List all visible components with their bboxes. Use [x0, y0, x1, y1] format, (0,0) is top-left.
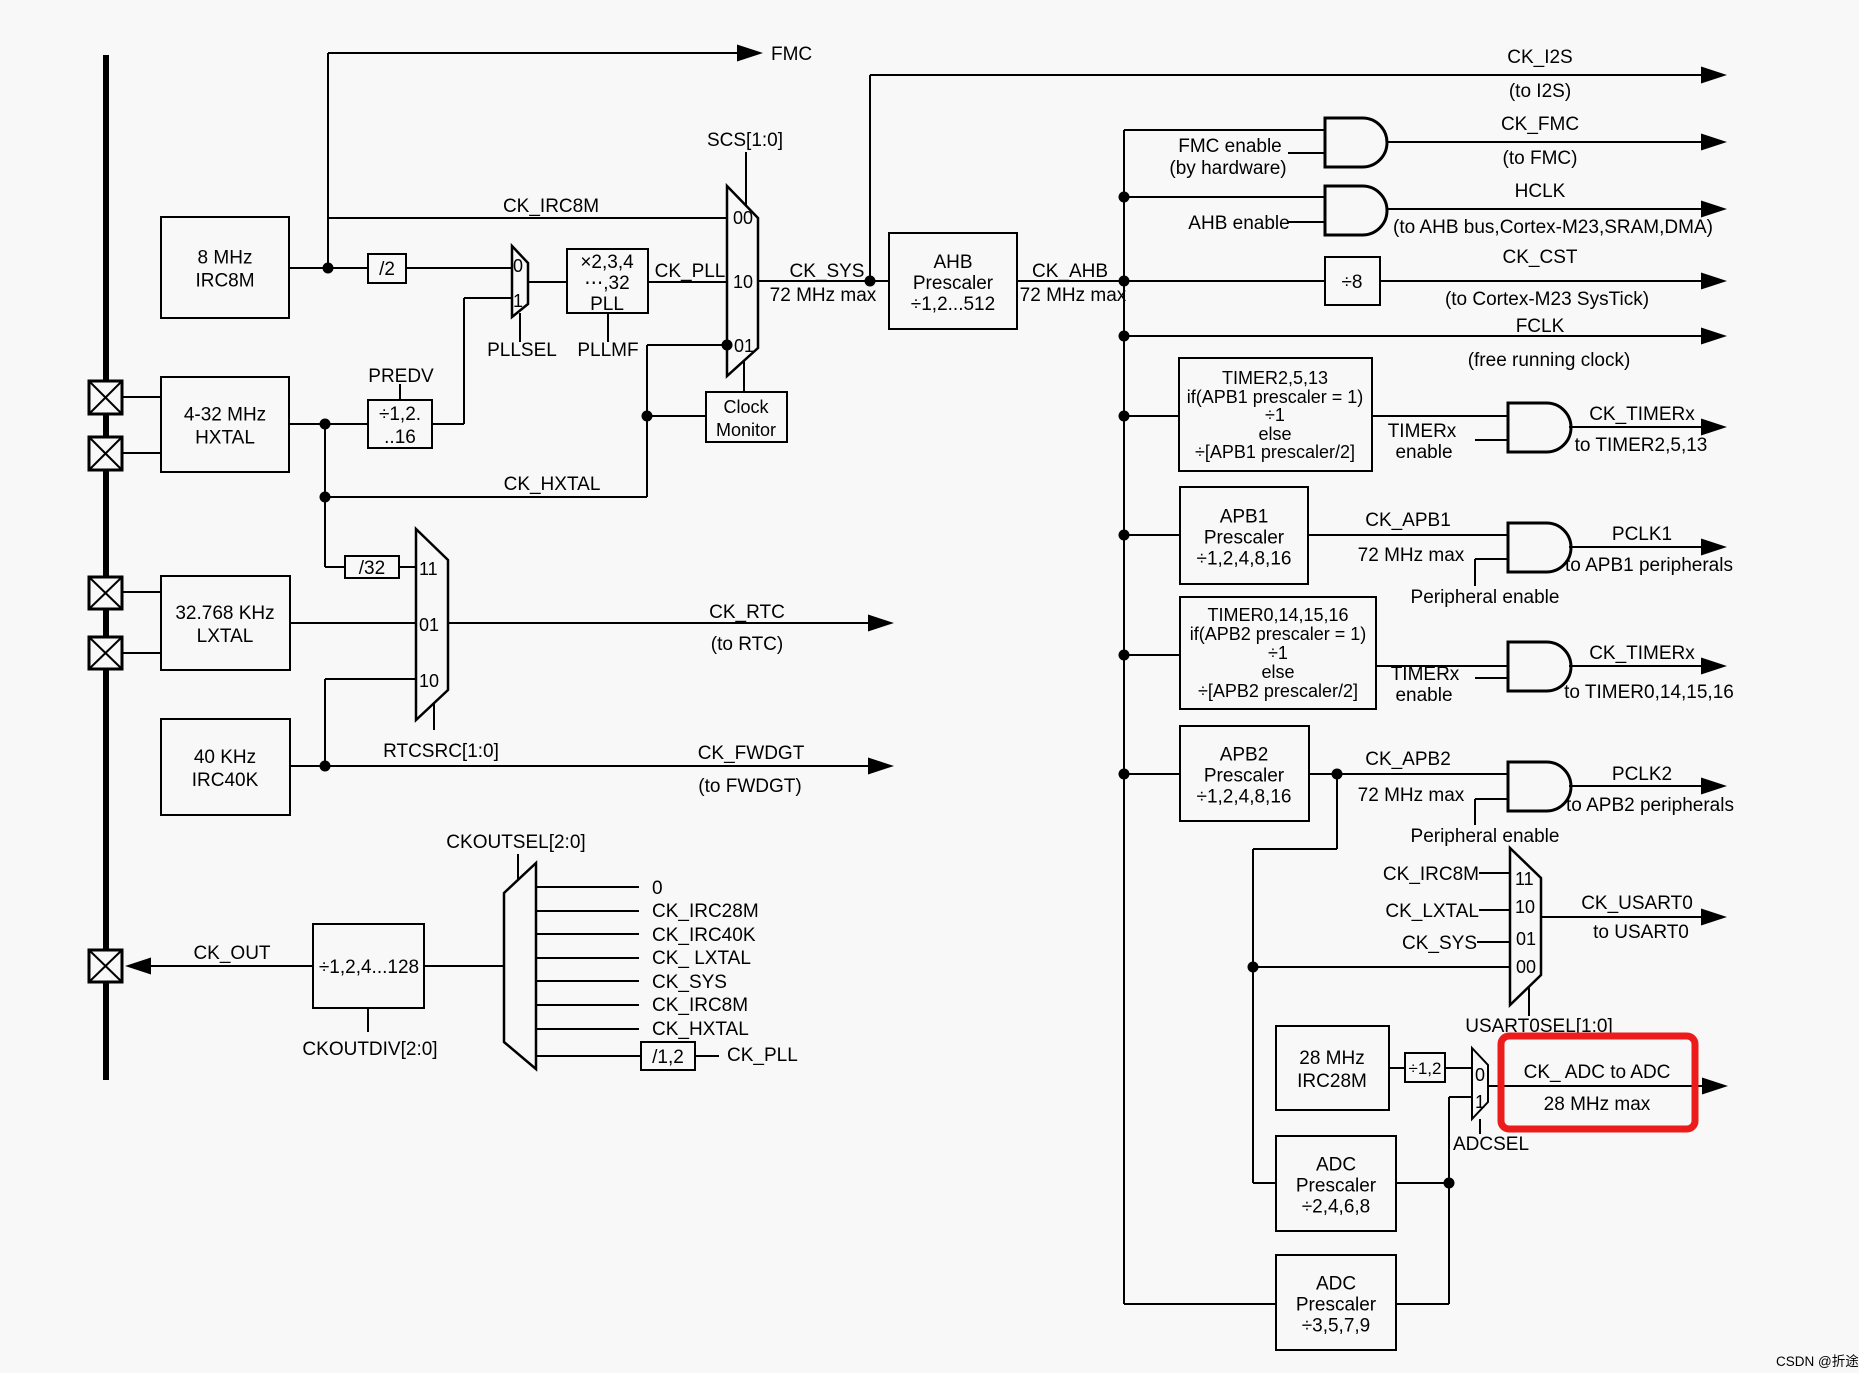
and-gate U4 APB1 peripheral clock gate: [1508, 523, 1571, 572]
svg-text:else: else: [1258, 424, 1291, 444]
svg-text:CK_I2S: CK_I2S: [1507, 47, 1572, 68]
svg-text:PLLSEL: PLLSEL: [487, 340, 557, 361]
prescaler APB1 (divide 1,2,4,8,16): [1180, 487, 1308, 584]
svg-text:HXTAL: HXTAL: [195, 428, 255, 449]
wire LXTAL pin1 to oscillator: [122, 591, 161, 593]
svg-text:10: 10: [419, 671, 439, 691]
wire PCLK2 enable drop: [1474, 799, 1476, 825]
wire into RTC mux input 10: [325, 678, 416, 680]
wire TIMER0,14,15,16 to gate: [1376, 665, 1508, 667]
svg-text:FMC: FMC: [771, 44, 812, 65]
arrow HCLK: [1701, 201, 1727, 218]
svg-text:CK_APB2: CK_APB2: [1365, 749, 1451, 770]
mux PLLSEL: [512, 246, 528, 317]
svg-text:÷1,2: ÷1,2: [1409, 1059, 1442, 1078]
crystal pad X3 (LXTAL pin1): [89, 577, 122, 609]
arrow CK_FMC: [1701, 134, 1727, 151]
wire IRC28M to divider: [1389, 1067, 1405, 1069]
svg-text:TIMERx: TIMERx: [1388, 421, 1457, 442]
wire PREDV riser to PLLSEL input 1: [463, 298, 465, 424]
wire CK_OUT: [146, 965, 313, 967]
wire bus to AHB-enable gate: [1124, 196, 1325, 198]
prescaler PREDV (divide 1,2..16): [368, 400, 432, 448]
svg-text:(to RTC): (to RTC): [711, 634, 783, 655]
svg-text:ADC: ADC: [1316, 1155, 1356, 1176]
wire into ADC prescaler 2,4,6,8: [1253, 1182, 1276, 1184]
svg-text:÷1: ÷1: [1268, 643, 1288, 663]
junction HXTAL output node: [320, 419, 331, 430]
junction clock monitor tap: [642, 411, 653, 422]
svg-text:LXTAL: LXTAL: [197, 626, 254, 647]
wire PCLK2 output: [1569, 785, 1712, 787]
svg-text:PREDV: PREDV: [368, 366, 434, 387]
wire CK_SYS to USART mux: [1477, 941, 1510, 943]
wire IRC8M output: [289, 267, 368, 269]
svg-text:CK_IRC28M: CK_IRC28M: [652, 901, 759, 922]
wire ADC prescaler 2468 output: [1396, 1182, 1449, 1184]
svg-text:÷1,2,4,8,16: ÷1,2,4,8,16: [1197, 787, 1292, 808]
svg-text:CK_TIMERx: CK_TIMERx: [1589, 404, 1695, 425]
wire AHB enable input: [1288, 221, 1325, 223]
wire CKOUTSEL input CK_IRC40K: [536, 933, 639, 935]
power rail (thick vertical line): [103, 55, 109, 1080]
svg-text:CK_HXTAL: CK_HXTAL: [652, 1019, 749, 1040]
svg-text:to APB2 peripherals: to APB2 peripherals: [1566, 795, 1734, 816]
divider /32: [345, 556, 399, 579]
svg-text:CKOUTDIV[2:0]: CKOUTDIV[2:0]: [302, 1039, 437, 1060]
svg-text:CK_IRC40K: CK_IRC40K: [652, 925, 756, 946]
svg-text:8 MHz: 8 MHz: [198, 248, 253, 269]
divider /2: [368, 254, 406, 283]
svg-text:APB1: APB1: [1220, 507, 1269, 528]
wire FMC enable input: [1288, 152, 1325, 154]
svg-text:PCLK2: PCLK2: [1612, 764, 1672, 785]
arrow PCLK1: [1701, 539, 1727, 556]
oscillator IRC28M (28 MHz): [1276, 1026, 1389, 1110]
pll PLL (x2,3,4...32): [567, 249, 648, 315]
mux USART0SEL: [1510, 848, 1541, 1005]
crystal pad X5 (CK_OUT pin): [89, 950, 122, 982]
wire CKOUTSEL input CK_HXTAL: [536, 1028, 639, 1030]
svg-text:CK_LXTAL: CK_LXTAL: [1385, 901, 1479, 922]
wire CKOUTSEL input CK_SYS: [536, 980, 639, 982]
svg-text:CK_RTC: CK_RTC: [709, 602, 785, 623]
wire CK_CST output: [1380, 280, 1712, 282]
svg-text:enable: enable: [1395, 442, 1452, 463]
svg-text:(to AHB bus,Cortex-M23,SRAM,DM: (to AHB bus,Cortex-M23,SRAM,DMA): [1393, 217, 1713, 238]
svg-text:(to FMC): (to FMC): [1503, 148, 1578, 169]
svg-text:CK_TIMERx: CK_TIMERx: [1589, 643, 1695, 664]
wire CK_APB2 shift left: [1253, 848, 1337, 850]
wire CK_SYS riser to CK_I2S: [869, 75, 871, 281]
svg-text:IRC40K: IRC40K: [192, 770, 259, 791]
svg-text:÷1: ÷1: [1265, 405, 1285, 425]
svg-text:APB2: APB2: [1220, 745, 1269, 766]
wire PCLK1 output: [1569, 546, 1712, 548]
junction CK_HXTAL node: [320, 492, 331, 503]
svg-text:Prescaler: Prescaler: [1204, 528, 1285, 549]
svg-text:CK_FMC: CK_FMC: [1501, 114, 1579, 135]
wire CK_IRC8M to SCS mux input 00: [328, 217, 727, 219]
wire bus to APB2 prescaler: [1124, 773, 1180, 775]
svg-text:CK_OUT: CK_OUT: [193, 943, 270, 964]
divider ÷8: [1325, 257, 1380, 305]
svg-text:40 KHz: 40 KHz: [194, 747, 256, 768]
crystal pad X2 (HXTAL pin2): [89, 437, 122, 470]
svg-text:72 MHz max: 72 MHz max: [770, 285, 877, 306]
svg-text:CK_USART0: CK_USART0: [1581, 893, 1693, 914]
svg-text:if(APB2 prescaler = 1): if(APB2 prescaler = 1): [1190, 624, 1367, 644]
svg-text:(free running clock): (free running clock): [1468, 350, 1631, 371]
svg-text:72 MHz max: 72 MHz max: [1358, 785, 1465, 806]
wire CKOUTSEL input 0: [536, 886, 639, 888]
svg-text:1: 1: [513, 291, 523, 311]
svg-text:PCLK1: PCLK1: [1612, 524, 1672, 545]
svg-text:Prescaler: Prescaler: [1296, 1295, 1377, 1316]
svg-text:CK_CST: CK_CST: [1503, 247, 1578, 268]
svg-text:IRC8M: IRC8M: [195, 271, 254, 292]
oscillator IRC40K (40 KHz): [161, 719, 290, 815]
junction CK_APB2 node: [1332, 769, 1343, 780]
wire CK_APB2 drop: [1336, 774, 1338, 849]
svg-text:ADC: ADC: [1316, 1274, 1356, 1295]
arrow CK_OUT to pad: [125, 958, 151, 975]
svg-text:÷3,5,7,9: ÷3,5,7,9: [1302, 1316, 1371, 1337]
junction bus to AHB-enable gate: [1119, 192, 1130, 203]
svg-text:32.768 KHz: 32.768 KHz: [175, 603, 274, 624]
wire CK_USART0 output: [1541, 916, 1712, 918]
svg-text:÷2,4,6,8: ÷2,4,6,8: [1302, 1197, 1371, 1218]
wire /32 to RTC mux input 11: [399, 566, 416, 568]
svg-text:28 MHz: 28 MHz: [1299, 1048, 1364, 1069]
svg-text:0: 0: [1475, 1065, 1485, 1085]
wire bus to TIMER0,14,15,16 block: [1124, 654, 1180, 656]
svg-text:IRC28M: IRC28M: [1297, 1071, 1367, 1092]
wire PCLK1 enable input: [1475, 558, 1508, 560]
junction ADC prescaler node: [1444, 1178, 1455, 1189]
prescaler ADC (divide 3,5,7,9): [1276, 1255, 1396, 1350]
svg-text:⋯,32: ⋯,32: [584, 273, 629, 294]
wire PLLMF label pointer: [607, 313, 609, 342]
arrow CK_USART0: [1701, 909, 1727, 926]
svg-text:CK_IRC8M: CK_IRC8M: [652, 995, 748, 1016]
svg-text:Monitor: Monitor: [716, 420, 776, 440]
svg-text:TIMER0,14,15,16: TIMER0,14,15,16: [1207, 605, 1348, 625]
wire HCLK output: [1387, 208, 1712, 210]
wire bus to APB1 prescaler: [1124, 534, 1180, 536]
svg-text:72 MHz max: 72 MHz max: [1358, 545, 1465, 566]
wire PREDV output: [432, 423, 464, 425]
wire CKOUTSEL input CK_ LXTAL: [536, 957, 639, 959]
junction bus TIMER0,14,15,16 tap: [1119, 650, 1130, 661]
arrow CK_RTC: [868, 615, 894, 632]
prescaler AHB (divide 1,2...512): [889, 233, 1017, 329]
svg-text:0: 0: [652, 878, 663, 899]
crystal pad X4 (LXTAL pin2): [89, 637, 122, 669]
wire CK_APB2 to gate: [1309, 773, 1508, 775]
wire bus to FMC-enable gate: [1124, 129, 1325, 131]
wire CKOUTSEL input CK_IRC8M: [536, 1004, 639, 1006]
svg-text:TIMER2,5,13: TIMER2,5,13: [1222, 368, 1328, 388]
wire ADCSEL select: [1479, 1119, 1481, 1134]
and-gate U1 FMC clock gate: [1325, 118, 1387, 167]
wire AHB distribution bus (vertical): [1123, 130, 1125, 1304]
wire CK_FMC output: [1387, 141, 1712, 143]
svg-text:PLL: PLL: [590, 294, 624, 315]
mux CKOUTSEL: [504, 863, 536, 1069]
wire CK_APB1 to gate: [1308, 534, 1508, 536]
wire /2 to PLLSEL mux input 0: [406, 267, 512, 269]
junction bus APB1 tap: [1119, 530, 1130, 541]
wire PREDV label pointer: [399, 384, 401, 400]
wire /1,2 to CK_PLL label: [695, 1055, 719, 1057]
svg-text:Prescaler: Prescaler: [913, 273, 994, 294]
wire to clock monitor: [647, 415, 706, 417]
junction IRC40K node: [320, 761, 331, 772]
wire FMC riser: [327, 53, 329, 268]
svg-text:Peripheral enable: Peripheral enable: [1411, 587, 1560, 608]
svg-text:CK_ ADC to ADC: CK_ ADC to ADC: [1524, 1062, 1671, 1083]
svg-text:01: 01: [734, 336, 754, 356]
svg-text:/1,2: /1,2: [652, 1047, 684, 1068]
junction bus to divide-8: [1119, 276, 1130, 287]
wire CK_PLL to SCS mux input 10: [648, 281, 727, 283]
svg-text:72 MHz max: 72 MHz max: [1020, 285, 1127, 306]
svg-text:CKOUTSEL[2:0]: CKOUTSEL[2:0]: [446, 832, 585, 853]
prescaler ADC (divide 2,4,6,8): [1276, 1136, 1396, 1231]
wire SCS select: [745, 152, 747, 206]
svg-text:HCLK: HCLK: [1515, 181, 1566, 202]
svg-text:if(APB1 prescaler = 1): if(APB1 prescaler = 1): [1187, 387, 1364, 407]
wire CK_HXTAL: [325, 496, 647, 498]
svg-text:÷1,2,4,8,16: ÷1,2,4,8,16: [1197, 549, 1292, 570]
svg-text:÷1,2...512: ÷1,2...512: [911, 294, 995, 315]
svg-text:CK_PLL: CK_PLL: [727, 1045, 798, 1066]
svg-text:ADCSEL: ADCSEL: [1453, 1134, 1529, 1155]
svg-text:(by hardware): (by hardware): [1169, 158, 1286, 179]
junction SCS input 01 node: [722, 340, 733, 351]
wire CK_LXTAL to USART mux: [1479, 909, 1510, 911]
svg-text:CK_SYS: CK_SYS: [790, 261, 865, 282]
wire bus to divide-8: [1124, 280, 1325, 282]
wire ADCSEL input 1: [1449, 1096, 1472, 1098]
svg-text:÷8: ÷8: [1342, 272, 1363, 293]
wire TIMERx enable input 2: [1475, 677, 1508, 679]
wire FCLK output: [1124, 335, 1712, 337]
wire HXTAL pin1 to oscillator: [122, 396, 161, 398]
wire LXTAL to RTC mux input 01: [290, 622, 416, 624]
wire HXTAL branch down: [324, 424, 326, 567]
junction USART 00 tap: [1248, 962, 1259, 973]
wire CKOUTSEL input CK_IRC28M: [536, 910, 639, 912]
svg-text:Peripheral enable: Peripheral enable: [1411, 826, 1560, 847]
svg-text:1: 1: [1475, 1092, 1485, 1112]
svg-text:CK_IRC8M: CK_IRC8M: [503, 196, 599, 217]
svg-text:÷[APB2 prescaler/2]: ÷[APB2 prescaler/2]: [1198, 681, 1358, 701]
arrow CK_CST: [1701, 273, 1727, 290]
svg-text:28 MHz max: 28 MHz max: [1544, 1094, 1651, 1115]
wire CK_ADC output: [1488, 1085, 1713, 1087]
wire FMC to flash: [328, 52, 740, 54]
prescaler CKOUTDIV (divide 1,2,4...128): [313, 924, 424, 1008]
wire LXTAL pin2 to oscillator: [122, 652, 161, 654]
svg-text:AHB: AHB: [933, 252, 972, 273]
svg-text:FCLK: FCLK: [1516, 316, 1565, 337]
svg-text:CK_AHB: CK_AHB: [1032, 261, 1108, 282]
wire HXTAL pin2 to oscillator: [122, 452, 161, 454]
svg-text:CSDN @折途: CSDN @折途: [1776, 1353, 1859, 1369]
svg-text:/2: /2: [379, 259, 395, 280]
svg-text:to TIMER0,14,15,16: to TIMER0,14,15,16: [1564, 682, 1734, 703]
wire RTC mux output CK_RTC: [448, 622, 880, 624]
oscillator HXTAL (4-32 MHz): [161, 377, 289, 472]
wire into PLLSEL mux input 1: [464, 297, 512, 299]
arrow FMC: [737, 45, 763, 62]
and-gate U5 TIMER0,14,15,16 clock gate: [1508, 642, 1571, 691]
svg-text:PLLMF: PLLMF: [577, 340, 638, 361]
svg-text:÷1,2.: ÷1,2.: [379, 404, 421, 425]
svg-text:(to FWDGT): (to FWDGT): [698, 776, 801, 797]
wire CK_SYS from SCS mux to AHB prescaler: [758, 280, 889, 282]
prescaler APB2 (divide 1,2,4,8,16): [1180, 726, 1309, 821]
wire PLLSEL select: [519, 313, 521, 342]
svg-text:00: 00: [733, 208, 753, 228]
mux SCS system clock select: [727, 186, 758, 376]
svg-text:to TIMER2,5,13: to TIMER2,5,13: [1575, 435, 1708, 456]
svg-text:÷[APB1 prescaler/2]: ÷[APB1 prescaler/2]: [1195, 442, 1355, 462]
wire HXTAL output: [289, 423, 368, 425]
wire TIMER2,5,13 to gate: [1372, 415, 1508, 417]
wire PLLSEL mux output: [528, 281, 567, 283]
svg-text:CK_APB1: CK_APB1: [1365, 510, 1451, 531]
oscillator IRC8M (8 MHz): [161, 217, 289, 318]
wire bus to TIMER2,5,13 block: [1124, 415, 1179, 417]
junction bus FCLK tap: [1119, 331, 1130, 342]
wire CK_I2S: [870, 74, 1712, 76]
wire CKOUTSEL input CK_PLL: [536, 1055, 641, 1057]
svg-text:4-32 MHz: 4-32 MHz: [184, 405, 266, 426]
svg-text:×2,3,4: ×2,3,4: [580, 252, 634, 273]
block TIMER2,5,13 multiplier: [1179, 358, 1372, 471]
divider ÷1,2: [1405, 1053, 1445, 1082]
arrow FCLK: [1701, 328, 1727, 345]
highlight box (red): [1501, 1036, 1695, 1129]
wire USART0SEL select: [1528, 987, 1530, 1016]
oscillator LXTAL (32.768 KHz): [161, 576, 290, 670]
svg-text:FMC enable: FMC enable: [1178, 136, 1282, 157]
svg-text:Clock: Clock: [723, 397, 769, 417]
and-gate U6 APB2 peripheral clock gate: [1508, 762, 1571, 811]
wire CKOUTDIV label pointer: [367, 1008, 369, 1032]
wire divider to ADCSEL input 0: [1445, 1067, 1472, 1069]
junction bus APB2 tap: [1119, 769, 1130, 780]
wire CK_IRC8M to USART mux: [1479, 872, 1510, 874]
crystal pad X1 (HXTAL pin1): [89, 381, 122, 414]
svg-text:0: 0: [513, 256, 523, 276]
svg-text:CK_IRC8M: CK_IRC8M: [1383, 864, 1479, 885]
svg-text:AHB enable: AHB enable: [1188, 213, 1289, 234]
svg-text:01: 01: [419, 615, 439, 635]
svg-text:01: 01: [1516, 929, 1536, 949]
wire CK_AHB to bus: [1017, 280, 1124, 282]
svg-text:(to Cortex-M23 SysTick): (to Cortex-M23 SysTick): [1445, 289, 1649, 310]
svg-text:00: 00: [1516, 957, 1536, 977]
and-gate U2 AHB clock gate: [1325, 186, 1387, 235]
svg-text:CK_FWDGT: CK_FWDGT: [698, 743, 805, 764]
wire PCLK1 enable drop: [1474, 559, 1476, 586]
wire CK_TIMERx output (APB1 timers): [1569, 426, 1712, 428]
svg-text:RTCSRC[1:0]: RTCSRC[1:0]: [383, 741, 499, 762]
block Clock Monitor: [706, 392, 787, 442]
wire ADC prescaler 3579 output: [1396, 1303, 1449, 1305]
wire IRC40K riser to RTC mux input 10: [324, 679, 326, 766]
svg-text:÷1,2,4...128: ÷1,2,4...128: [319, 957, 419, 978]
junction IRC8M output node: [323, 263, 334, 274]
wire RTCSRC select: [433, 704, 435, 730]
wire PCLK2 enable input: [1475, 798, 1508, 800]
divider /1,2: [641, 1042, 695, 1070]
svg-text:10: 10: [1515, 897, 1535, 917]
svg-text:to APB1 peripherals: to APB1 peripherals: [1565, 555, 1733, 576]
svg-text:CK_SYS: CK_SYS: [1402, 933, 1477, 954]
svg-text:Prescaler: Prescaler: [1296, 1176, 1377, 1197]
wire ADC prescaler rail: [1448, 1097, 1450, 1304]
svg-text:10: 10: [733, 272, 753, 292]
mux RTCSRC clock select: [416, 529, 448, 720]
and-gate U3 TIMER2,5,13 clock gate: [1508, 403, 1571, 452]
junction CK_SYS node: [865, 276, 876, 287]
arrow CK_I2S: [1701, 67, 1727, 84]
block TIMER0,14,15,16 multiplier: [1180, 597, 1376, 709]
svg-text:SCS[1:0]: SCS[1:0]: [707, 130, 783, 151]
wire IRC40K output CK_FWDGT: [290, 765, 880, 767]
svg-text:CK_ LXTAL: CK_ LXTAL: [652, 948, 751, 969]
wire CKOUTSEL mux output: [424, 965, 504, 967]
arrow CK_ADC: [1702, 1078, 1728, 1095]
svg-text:..16: ..16: [384, 427, 416, 448]
svg-text:/32: /32: [359, 558, 385, 579]
svg-text:to USART0: to USART0: [1593, 922, 1689, 943]
wire CKOUTSEL select: [517, 854, 519, 880]
svg-text:Prescaler: Prescaler: [1204, 766, 1285, 787]
wire CK_TIMERx output (APB2 timers): [1569, 665, 1712, 667]
arrow CK_TIMERx APB2: [1701, 658, 1727, 675]
svg-text:TIMERx: TIMERx: [1391, 664, 1460, 685]
svg-text:11: 11: [1515, 869, 1534, 889]
wire clock monitor to SCS mux: [743, 361, 745, 392]
arrow CK_FWDGT: [868, 758, 894, 775]
svg-text:else: else: [1261, 662, 1294, 682]
svg-text:enable: enable: [1395, 685, 1452, 706]
wire CK_APB2 down rail: [1252, 849, 1254, 1183]
wire SCS mux input 01 from CK_HXTAL: [647, 344, 727, 346]
svg-text:CK_PLL: CK_PLL: [655, 261, 726, 282]
arrow PCLK2: [1701, 778, 1727, 795]
wire into /32 divider: [325, 566, 345, 568]
svg-text:CK_SYS: CK_SYS: [652, 972, 727, 993]
wire bus to ADC prescaler 3579: [1124, 1303, 1276, 1305]
svg-text:(to I2S): (to I2S): [1509, 81, 1571, 102]
junction bus TIMER2,5,13 tap: [1119, 411, 1130, 422]
svg-text:11: 11: [419, 559, 438, 579]
wire USART mux input 00: [1253, 966, 1510, 968]
arrow CK_TIMERx APB1: [1701, 419, 1727, 436]
mux ADCSEL: [1472, 1048, 1488, 1119]
wire TIMERx enable input: [1475, 439, 1508, 441]
wire CK_HXTAL riser: [646, 345, 648, 497]
svg-text:CK_HXTAL: CK_HXTAL: [504, 474, 601, 495]
